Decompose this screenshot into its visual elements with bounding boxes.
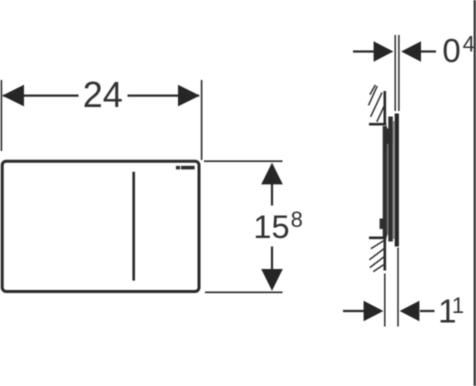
dimension 15.8: bottom extension line	[205, 291, 283, 293]
side view: lower wall hatching	[369, 241, 385, 272]
plate button divider line	[132, 172, 135, 281]
dimension 1.1: left-pointing arrowhead	[400, 301, 420, 321]
svg-text:4: 4	[463, 31, 475, 56]
svg-text:24: 24	[83, 74, 123, 115]
dimension 1.1: left line	[343, 310, 365, 312]
side view: plate thickness extension line pair	[395, 35, 399, 111]
side view: upper wall hatching	[369, 85, 385, 122]
dimension 1.1: right-pointing arrowhead	[364, 301, 384, 321]
side view: lower wall face line	[383, 237, 386, 271]
dimension 24: left arrowhead	[2, 85, 24, 107]
side view: bottom right extension line	[397, 248, 399, 327]
dimension 24: right arrowhead	[178, 85, 200, 107]
side view: bottom left extension line	[384, 274, 386, 327]
side view: upper mounting clip	[387, 129, 393, 145]
dimension 0.4: right-pointing arrowhead	[374, 41, 394, 61]
side view: upper wall face line	[383, 91, 386, 125]
svg-text:15: 15	[253, 209, 289, 245]
dimension 24: line left segment	[3, 94, 79, 96]
svg-text:1: 1	[452, 293, 464, 318]
dimension 15.8: line lower segment	[271, 247, 273, 270]
dimension 0.4: right line	[421, 50, 437, 52]
svg-text:8: 8	[291, 207, 303, 232]
side view: frame inner band	[383, 126, 387, 237]
dimension 24: line right segment	[128, 94, 200, 96]
dimension 0.4: left line	[353, 50, 375, 52]
plate front view outline	[2, 161, 199, 291]
dimension 15.8: line upper segment	[271, 184, 273, 206]
side view: lower wall niche edge	[369, 237, 386, 240]
side view: plate profile bar	[395, 114, 399, 247]
dimension 0.4: left-pointing arrowhead	[401, 41, 421, 61]
dimension 1.1: right line	[420, 310, 435, 312]
side view: upper wall niche edge	[369, 123, 386, 126]
dimension 24: left extension line	[0, 80, 2, 151]
side view: frame gap shading 2	[393, 121, 395, 239]
dimension 15.8: down arrowhead	[261, 269, 283, 291]
Geberit logo	[176, 166, 195, 170]
side view: frame gap shading 1	[387, 129, 388, 235]
dimension 24: right extension line	[201, 80, 203, 160]
dimension 15.8: top extension line	[204, 160, 283, 162]
side view: frame outer band	[388, 117, 393, 242]
dimension 15.8: up arrowhead	[261, 163, 283, 185]
svg-text:0: 0	[442, 32, 460, 69]
page border right edge	[474, 0, 476, 386]
side view: lower mounting clip	[380, 219, 386, 230]
